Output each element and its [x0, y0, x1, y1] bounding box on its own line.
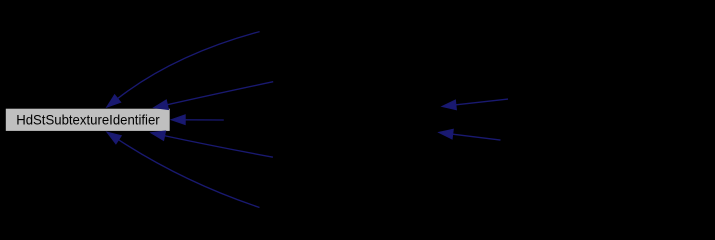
- class box HdStPtexSubtextureIdentifier (black on black): [273, 146, 450, 168]
- class box HdStFieldBaseSubtextureIdentifier (black on black): [224, 109, 440, 131]
- class box HdStUdimSubtextureIdentifier (black on black): [260, 196, 450, 218]
- svg-text:HdStSubtextureIdentifier: HdStSubtextureIdentifier: [16, 111, 160, 127]
- class box HdStSubtextureIdentifier (current node, grey): [6, 109, 170, 131]
- inheritance arrow from HdStPtexSubtextureIdentifier to HdStSubtextureIdentifier: [151, 131, 273, 157]
- inheritance arrow from HdStAssetUvSubtextureIdentifier to HdStSubtextureIdentifier: [107, 32, 260, 108]
- inheritance arrow from HdStField3DAssetSubtextureIdentifier to HdStFieldBaseSubtextureIdentifier: [442, 99, 508, 110]
- svg-text:HdStOpenVDBAssetSubtextureIden: HdStOpenVDBAssetSubtextureIdentifier: [483, 133, 715, 148]
- class box HdStOpenVDBAssetSubtextureIdentifier (black on black): [483, 129, 715, 151]
- inheritance arrow from HdStUdimSubtextureIdentifier to HdStSubtextureIdentifier: [107, 132, 260, 207]
- svg-text:HdStAssetUvSubtextureIdentifie: HdStAssetUvSubtextureIdentifier: [256, 24, 452, 39]
- svg-text:HdStField3DAssetSubtextureIden: HdStField3DAssetSubtextureIdentifier: [494, 92, 715, 107]
- svg-text:HdStDynamicUvSubtextureIdentif: HdStDynamicUvSubtextureIdentifier: [254, 74, 469, 89]
- class box HdStAssetUvSubtextureIdentifier (black on black): [256, 21, 452, 43]
- inheritance arrow from HdStDynamicUvSubtextureIdentifier to HdStSubtextureIdentifier: [154, 82, 274, 110]
- svg-text:HdStFieldBaseSubtextureIdentif: HdStFieldBaseSubtextureIdentifier: [229, 113, 435, 128]
- inheritance arrow from HdStOpenVDBAssetSubtextureIdentifier to HdStFieldBaseSubtextureIdentifier: [439, 129, 501, 140]
- svg-text:HdStUdimSubtextureIdentifier: HdStUdimSubtextureIdentifier: [265, 199, 443, 214]
- inheritance arrow from HdStFieldBaseSubtextureIdentifier to HdStSubtextureIdentifier: [171, 115, 224, 125]
- class box HdStDynamicUvSubtextureIdentifier (black on black): [254, 71, 469, 93]
- svg-text:HdStPtexSubtextureIdentifier: HdStPtexSubtextureIdentifier: [275, 150, 448, 165]
- class box HdStField3DAssetSubtextureIdentifier (black on black): [494, 88, 715, 110]
